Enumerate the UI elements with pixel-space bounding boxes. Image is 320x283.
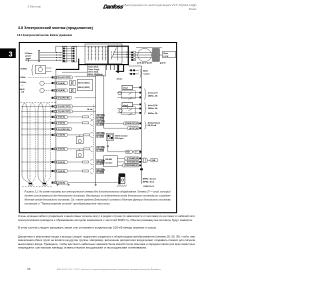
svg-text:55 (COM A IN): 55 (COM A IN): [58, 97, 70, 100]
relay 2 bracket: [144, 102, 146, 114]
RS-485 terminal 61: [118, 164, 139, 166]
svg-text:10Vdc 15mA: 10Vdc 15mA: [88, 70, 99, 73]
terminal 53 A IN: [52, 82, 54, 84]
27 mode switch: [76, 137, 83, 144]
svg-text:OFF=Open: OFF=Open: [115, 138, 124, 140]
bold drive outline: top-right elbow: [108, 46, 128, 65]
SMPS chopper switch: [111, 48, 117, 60]
svg-text:Motor: Motor: [163, 52, 168, 55]
svg-text:0/4-20 mA: 0/4-20 mA: [148, 124, 157, 127]
brake resistor terminals 81 82: [129, 69, 139, 71]
relay 2 coil circle: [119, 109, 122, 112]
svg-text:(N RS-485) 69: (N RS-485) 69: [127, 161, 138, 164]
control card left bus: [55, 69, 57, 183]
24V rail (dashed): [92, 105, 94, 173]
cable loop 2: [30, 103, 35, 176]
motor terminals 96 97 98 99: [131, 52, 133, 54]
RS-485 terminal 68: [118, 157, 139, 159]
EMC shield clamp icon: [119, 173, 126, 176]
svg-text:29 (D IN): 29 (D IN): [58, 149, 66, 151]
inverter-to-motor wires through power section: [113, 51, 131, 53]
current source circle A54: [40, 88, 44, 92]
svg-text:≈10KΩ: ≈10KΩ: [20, 67, 27, 70]
figure border frame: [19, 43, 176, 213]
RS-485 interface box: [104, 156, 118, 167]
right-hand control bus: [141, 66, 143, 184]
relay 1 coil wire: [133, 86, 139, 88]
transformer winding at x=104: [102, 46, 104, 61]
bold drive outline: left step: [56, 59, 79, 70]
svg-text:relay1: relay1: [123, 88, 128, 90]
svg-text:ON=Terminated: ON=Terminated: [115, 134, 128, 137]
left area separator dashes: [21, 101, 56, 103]
svg-text:19 (D IN): 19 (D IN): [58, 123, 66, 125]
SMPS switch-mode power supply box: [85, 44, 122, 64]
ground symbol under bus: [56, 184, 58, 186]
svg-text:0 V (PNP): 0 V (PNP): [97, 172, 104, 174]
S801 wire pills: [125, 150, 132, 153]
svg-text:18 (D IN): 18 (D IN): [58, 117, 66, 119]
svg-text:3.8.1 Электрический монтаж, К: 3.8.1 Электрический монтаж, Кабели управ…: [17, 33, 72, 37]
brake resistor label bracket: [140, 69, 142, 78]
svg-text:50 (+10 V OUT): 50 (+10 V OUT): [58, 77, 71, 79]
svg-text:S801: S801: [126, 152, 130, 154]
svg-text:+10Vdc: +10Vdc: [19, 77, 25, 79]
svg-text:37 (D IN): 37 (D IN): [58, 182, 66, 184]
analog output terminal 42: [104, 127, 139, 129]
tie lines between columns: [65, 47, 73, 49]
svg-text:должен использоваться для безо: должен использоваться для безопасного ос…: [25, 194, 172, 197]
terminal 13 +24V OUT: [52, 110, 54, 112]
analog output terminal 39: [104, 122, 139, 124]
wire: top bus to power section: [56, 45, 108, 47]
wires pot to card: [46, 67, 52, 69]
connector power section to bus: [129, 65, 142, 67]
svg-text:MG.20.P1.50 - VLT® является за: MG.20.P1.50 - VLT® является зарегистриро…: [57, 268, 162, 271]
svg-text:0 V (PNP): 0 V (PNP): [97, 163, 104, 165]
DIP switch S801 box: [106, 133, 114, 140]
cable loop 4: [45, 103, 50, 176]
SMPS label table: [87, 65, 106, 76]
svg-text:Рисунок 3.2: На схеме показаны: Рисунок 3.2: На схеме показаны все элект…: [25, 190, 172, 193]
29 mode switch: [76, 151, 83, 158]
wire 55 to rail: [75, 97, 96, 99]
svg-text:(NPN) = Sink: (NPN) = Sink: [143, 182, 155, 184]
svg-text:24 vdc: 24 vdc: [117, 78, 123, 81]
svg-text:(P RS-485) 68: (P RS-485) 68: [127, 157, 138, 160]
wire L3 93: [40, 57, 63, 59]
relay 1 contacts: [117, 92, 139, 94]
svg-text:электропитания приводить к обр: электропитания приводить к образованию к…: [18, 218, 193, 222]
svg-text:(COM RS-485) 61: (COM RS-485) 61: [124, 164, 138, 167]
svg-text:resistor: resistor: [143, 72, 150, 75]
terminal 33 D IN: [52, 170, 54, 172]
svg-text:Danfoss: Danfoss: [102, 4, 123, 10]
24V supply arrow: [119, 65, 124, 71]
USB connector: [142, 158, 148, 163]
wire PE 95: [40, 59, 63, 61]
svg-text:relay2: relay2: [123, 105, 128, 107]
svg-text:Power: Power: [189, 7, 197, 11]
svg-text:3 Монтаж: 3 Монтаж: [28, 4, 41, 8]
svg-text:(COM A OUT) 39: (COM A OUT) 39: [125, 122, 138, 125]
svg-text:240Vac, 2A: 240Vac, 2A: [148, 107, 158, 110]
input terminal column B: [72, 47, 77, 62]
svg-text:Монтаж входа безопасного остан: Монтаж входа безопасного останова. См. т…: [25, 198, 172, 201]
svg-text:400Vac, 2A: 400Vac, 2A: [148, 112, 158, 115]
cable shield clamp A: [29, 183, 33, 184]
svg-text:0 V (PNP): 0 V (PNP): [97, 136, 104, 138]
svg-text:input: input: [26, 57, 31, 60]
terminal 19 D IN: [52, 122, 54, 124]
motor label box: [162, 51, 175, 57]
transformer winding at x=90: [88, 46, 90, 61]
S201 switch: [69, 81, 72, 86]
motor cable wires: [136, 52, 153, 54]
svg-text:240Vac, 2A: 240Vac, 2A: [148, 94, 158, 97]
terminal 32 D IN: [52, 161, 54, 163]
S801 wire: [108, 140, 139, 151]
svg-text:Дискретные и аналоговые входы: Дискретные и аналоговые входы и выходы с…: [18, 234, 196, 238]
svg-text:Brake: Brake: [143, 71, 148, 73]
svg-text:27 (D IN): 27 (D IN): [58, 135, 66, 137]
chapter side tab 3: [0, 48, 16, 58]
svg-text:33 (D IN): 33 (D IN): [58, 171, 66, 173]
terminal 18 D IN: [52, 116, 54, 118]
svg-text:Interface: Interface: [105, 162, 113, 165]
svg-text:0 V (PNP): 0 V (PNP): [97, 150, 104, 152]
A53/A54 U-I switch box: [77, 80, 93, 91]
svg-text:(A OUT) 42: (A OUT) 42: [129, 127, 138, 130]
bold drive outline: left edge: [107, 46, 109, 65]
potentiometer bracket: [31, 65, 33, 76]
wire motor to label: [159, 54, 162, 56]
wire L1 91: [40, 51, 63, 53]
svg-text:0 V (PNP): 0 V (PNP): [97, 118, 104, 120]
cable loop 3: [38, 103, 43, 176]
terminal 27 D IN: [52, 134, 54, 136]
control card right boundary: [96, 76, 104, 129]
svg-text:A53 U-I (S201): A53 U-I (S201): [78, 82, 90, 85]
terminal 37 D IN safe stop: [52, 182, 54, 184]
PE top wire: [136, 47, 162, 49]
svg-text:13 (+24 V OUT): 13 (+24 V OUT): [58, 110, 71, 113]
svg-text:0 V (PNP): 0 V (PNP): [97, 124, 104, 126]
terminal 55 COM A IN: [52, 97, 54, 99]
svg-text:В этом случае следует разорват: В этом случае следует разорвать экран ил…: [18, 225, 157, 229]
RS-485 terminal 69: [118, 161, 139, 163]
svg-text:(u) 96 (v) 97 (w) 98: (u) 96 (v) 97 (w) 98: [137, 63, 152, 65]
svg-text:53 (A IN): 53 (A IN): [58, 82, 66, 85]
relay 2 contact box: [122, 107, 135, 115]
transformer winding at x=97: [95, 46, 97, 61]
svg-text:12 (+24 V OUT): 12 (+24 V OUT): [58, 105, 71, 108]
cable loop 1: [22, 103, 27, 176]
control card inner bus: [95, 76, 97, 184]
relay 1 contact box: [122, 91, 135, 99]
svg-text:3.8 Электрический монтаж (про: 3.8 Электрический монтаж (продолжение): [18, 26, 93, 30]
svg-text:A54 U-I (S202): A54 U-I (S202): [78, 86, 90, 89]
svg-text:130BA114.10: 130BA114.10: [143, 185, 154, 188]
analog output bracket and label: [144, 122, 146, 130]
chassis dashed line: [22, 186, 53, 188]
relay 1 coil circle: [118, 92, 121, 95]
svg-text:передачи сигналов между извест: передачи сигналов между известными входн…: [18, 247, 147, 250]
wire from card to SMPS table: [62, 71, 87, 73]
svg-text:32 (D IN): 32 (D IN): [58, 162, 66, 164]
svg-text:аналогового входа. Проверьте,: аналогового входа. Проверьте, чтобы жест…: [18, 242, 196, 246]
motor body (striped): [153, 49, 160, 62]
cable screen oval: [138, 48, 152, 61]
input terminal column A: [62, 47, 67, 62]
mains terminal bracket: [38, 50, 40, 61]
terminal 29 D IN: [52, 148, 54, 150]
bold drive outline: bottom edge of power section: [79, 64, 129, 66]
svg-text:(relay 1) 03: (relay 1) 03: [148, 93, 157, 95]
potentiometer body: [35, 66, 46, 74]
bus terminal tick: [140, 168, 143, 170]
svg-text:Очень длинные кабели управлени: Очень длинные кабели управления и аналог…: [18, 214, 196, 218]
terminal 12 +24V OUT: [52, 105, 54, 107]
SMPS secondary legs: [106, 65, 108, 70]
wire L2 92: [40, 54, 63, 56]
svg-text:36: 36: [27, 267, 31, 271]
svg-text:RS-485: RS-485: [105, 158, 111, 161]
svg-text:Analog Output: Analog Output: [148, 121, 161, 124]
svg-text:(PNP) = Source: (PNP) = Source: [143, 178, 156, 181]
svg-text:24 vdc: 24 vdc: [87, 108, 92, 111]
terminal 50 +10V OUT: [52, 76, 54, 78]
voltage source circle A53: [40, 81, 44, 85]
relay 1 coil box: [122, 85, 133, 89]
junction dots on mains wires: [56, 52, 57, 53]
cable shield clamp B: [43, 183, 47, 184]
relay 1 bracket: [144, 89, 146, 100]
terminal 54 A IN: [52, 89, 54, 91]
svg-text:заземления обеих групп не влия: заземления обеих групп не влияли на друг…: [18, 238, 196, 242]
S202 switch: [69, 88, 72, 93]
terminal 20 COM D IN: [52, 128, 54, 130]
svg-text:U V W: U V W: [163, 56, 168, 58]
svg-text:3: 3: [9, 51, 13, 58]
clamp hatching: [117, 185, 127, 187]
relay 2 coil box: [122, 103, 133, 107]
svg-text:54 (A IN): 54 (A IN): [58, 89, 66, 92]
svg-text:20 (COM D IN): 20 (COM D IN): [58, 129, 70, 131]
svg-text:(relay 2) 06: (relay 2) 06: [148, 105, 157, 107]
svg-text:(pe) 99: (pe) 99: [160, 63, 166, 65]
PE ground stub: [28, 59, 40, 61]
svg-text:Инструкции по эксплуатации VLT: Инструкции по эксплуатации VLT AQUA High: [124, 3, 198, 7]
svg-text:останове и "Термисторном отказ: останове и "Термисторном отказе" преобра…: [25, 202, 111, 205]
relay 2 contacts: [133, 103, 139, 105]
svg-text:- +: - +: [21, 84, 23, 86]
